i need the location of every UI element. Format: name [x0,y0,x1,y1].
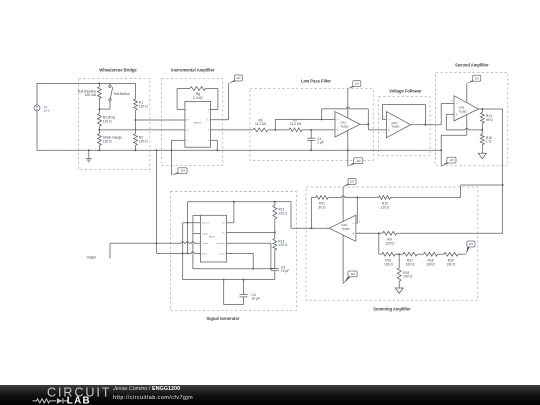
label C3 10 µF [281,266,289,274]
svg-text:Control: Control [219,252,226,255]
label C1 1 µF [317,137,324,145]
wire IA out to R6 [210,129,253,131]
wire LPF feedback top [322,109,369,124]
svg-text:10 µF: 10 µF [252,297,260,301]
wire R1-R2 node [135,110,137,133]
svg-text:120 Ω: 120 Ω [278,211,287,215]
svg-text:6: 6 [208,130,209,132]
svg-text:IN+: IN+ [186,130,189,132]
flag 12V summing [343,178,356,186]
wire reset jog [156,243,200,254]
flag -12V summing [343,271,357,284]
ground SA [478,145,486,159]
svg-text:11.2 kΩ: 11.2 kΩ [290,122,302,126]
section box Voltage Follower [379,97,430,156]
wire R11 to minus node [328,196,378,198]
svg-text:-12V: -12V [350,272,356,276]
wire bridge left tap to IN+ [99,129,184,131]
section label Signal Generator [207,316,240,321]
wire C-line bottom [183,279,275,281]
op-amp U2 555 timer [200,215,226,262]
wire OA1 V+ supply [347,89,349,119]
wire C4 loop [224,280,244,305]
wire R9 to SA out column [397,232,503,234]
opamp OA1 +/- marks [337,118,339,133]
wire SG top line [187,201,329,229]
svg-text:10 µF: 10 µF [281,269,289,273]
svg-text:3: 3 [451,117,453,119]
svg-text:−: − [352,222,354,226]
svg-text:Threshold: Threshold [216,242,226,245]
resistor R14 [480,109,484,123]
flag 12V SA [467,75,481,83]
svg-text:Summing Amplifier: Summing Amplifier [373,307,411,312]
label R17 100 Ω [406,259,415,267]
svg-text:12V: 12V [469,242,474,246]
pin labels INA126 right [207,109,209,142]
svg-text:+: + [456,113,458,117]
svg-text:1: 1 [357,121,359,123]
capacitor C4 [240,280,248,305]
svg-text:1: 1 [186,109,187,111]
svg-text:Trigger: Trigger [202,232,209,235]
wire hop output row 2 [186,242,189,245]
label R19 100 Ω [403,271,412,279]
resistor Test Resistor [98,87,102,99]
svg-text:Instrumental Amplifier: Instrumental Amplifier [171,68,215,73]
section box Wheatstone Bridge [79,78,150,169]
svg-text:Second Amplifier: Second Amplifier [455,63,489,68]
label R16 100 Ω [384,259,393,267]
op-amp OA4 [386,112,410,138]
wire Rg loop left [177,89,190,110]
capacitor C1 [307,130,315,151]
svg-text:120 Ω: 120 Ω [103,120,112,124]
label R3 (Pot) 120 Ω [103,116,115,124]
wire SA plus input [446,114,483,131]
label R9 120 Ω [385,238,394,246]
svg-text:100 Ω: 100 Ω [384,262,393,266]
wire R18-R20 [438,253,444,255]
svg-text:120 Ω: 120 Ω [139,105,148,109]
svg-text:12 V: 12 V [44,108,50,112]
wire 555 threshold stub [227,243,271,269]
resistor R12 [273,202,277,219]
wire divider down [379,233,382,254]
svg-text:IN−: IN− [186,120,189,122]
svg-text:1 Ω: 1 Ω [486,140,492,144]
wire top rail [37,82,136,84]
wire R10 to SA out [390,185,502,197]
wire R20 to 12V flag [458,253,466,255]
label R15 1 Ω [486,136,492,144]
wire OA1 out [360,123,386,130]
label R20 100 Ω [447,259,456,267]
resistor R20 [444,252,458,256]
svg-text:−: − [337,118,339,122]
wire node A [268,129,289,131]
switch Test Button [99,83,112,109]
section label Instrumental Amplifier [171,68,215,73]
pin numbers OA2 [327,222,361,235]
section label Low Pass Filter [301,78,331,83]
svg-text:120 Ω: 120 Ω [381,205,390,209]
resistor R19 [397,254,401,281]
wire test-resistor top [98,82,100,86]
flag -12V LPF [348,158,363,167]
wire LPF minus loop [275,109,335,130]
wire Rg loop right [206,89,218,110]
wire hop output row 1 [181,242,184,245]
wire pin5 to rail [210,140,218,151]
svg-text:120 Ω: 120 Ω [139,139,148,143]
label Output [86,255,96,259]
svg-text:1: 1 [477,105,479,107]
svg-text:Signal Generator: Signal Generator [207,316,240,321]
label OA2 TL082 [341,223,350,231]
svg-text:12V: 12V [355,82,360,86]
svg-text:6: 6 [359,222,361,224]
junction mark crossing [135,129,136,130]
resistor R18 [424,252,438,256]
svg-text:100 Ω: 100 Ω [447,262,456,266]
wire bottom rail [37,149,441,151]
op-amp OA6 [454,96,478,121]
label R13 120 Ω [278,240,287,248]
wire SA output [478,108,503,233]
section label Second Amplifier [455,63,489,68]
wire SA V- supply [440,115,467,167]
svg-text:-12V: -12V [180,169,186,173]
resistor R6 [253,128,268,132]
opamp OA4 +/- marks [388,118,390,133]
resistor R9 [383,231,397,235]
svg-text:99 Ω: 99 Ω [486,118,494,122]
resistor R2 [134,134,138,146]
label OA1 TL082 [340,121,349,129]
svg-text:−: − [456,102,458,106]
footer bar [0,385,540,405]
wire 555 ground net [183,202,201,280]
wire OA1 V- supply [347,130,349,166]
svg-text:Dis: Dis [222,233,225,235]
label R6 11.2 kΩ [255,119,267,127]
flag -12V SA [441,157,456,166]
svg-text:INA126: INA126 [194,122,202,125]
flag -12V IA [171,168,187,175]
label R18 100 Ω [426,259,435,267]
wire net vertical from rail [155,149,157,244]
wire hop LPF feedback [346,107,349,110]
svg-text:5: 5 [208,140,209,142]
resistor R1 [134,99,138,110]
svg-text:120 Ω: 120 Ω [278,243,287,247]
wire 555 vcc [227,202,234,223]
svg-text:Wheatstone Bridge: Wheatstone Bridge [99,68,137,73]
wire 555 dis [227,231,276,233]
ground summing [395,281,403,293]
svg-text:8: 8 [208,109,209,111]
resistor R10 [378,196,390,200]
wire OA2 minus input [356,197,357,223]
svg-text:LAB: LAB [67,395,91,405]
label Strain Gauge 120 Ω [103,135,122,143]
svg-text:12V: 12V [474,76,479,80]
svg-text:12V: 12V [350,179,355,183]
svg-text:TL082: TL082 [391,125,400,129]
section label Summing Amplifier [373,307,411,312]
wire test-resistor bottom [98,99,100,114]
svg-text:12V: 12V [236,76,241,80]
label R1 120 Ω [139,101,148,109]
section box Second Amplifier [436,72,508,165]
label V1 12 V [44,105,50,113]
svg-text:Reset: Reset [202,252,208,255]
pin labels 555 right [216,223,226,256]
opamp OA2 +/- marks [352,222,354,237]
svg-text:2: 2 [451,101,453,103]
svg-text:1 µF: 1 µF [317,140,324,144]
svg-text:120 Ω: 120 Ω [385,241,394,245]
capacitor C3 [271,250,279,280]
svg-text:V+: V+ [207,120,209,122]
label NE555 [209,236,216,238]
voltage source V1 [34,83,40,150]
label R2 120 Ω [139,135,148,143]
section box Instrumental Amplifier [162,79,223,166]
svg-text:TL082: TL082 [459,109,468,113]
resistor R16 [382,252,396,256]
label C4 10 µF [252,293,260,301]
label OA4 TL082 [391,121,400,129]
wire node B to plus input [302,129,335,131]
label R12 120 Ω [278,208,287,216]
CircuitLab logo [0,385,110,405]
svg-text:3: 3 [332,133,334,135]
op-amp OA2 [329,215,356,241]
svg-text:30 Ω: 30 Ω [318,205,326,209]
wire R2 bottom [135,145,137,151]
wire OA2 plus row [356,232,383,234]
opamp OA6 +/- marks [456,102,458,117]
svg-text:5: 5 [383,132,385,134]
svg-text:+: + [388,129,390,133]
label OA6 TL082 [459,106,468,114]
label Test Resistor 100 mΩ [77,89,97,97]
svg-text:6: 6 [383,117,385,119]
resistor R13 [273,219,277,250]
ground bridge [86,149,92,161]
svg-text:Vcc: Vcc [222,223,225,225]
flag 12V divider [466,241,475,254]
svg-text:100 Ω: 100 Ω [406,262,415,266]
pin numbers OA1 [332,116,359,135]
section box Low Pass Filter [250,89,373,161]
wire hop R11 row [342,196,345,199]
pin labels INA126 left [186,109,189,142]
wire bridge right tap to IN- [136,119,185,121]
wire R17-R18 [417,253,423,255]
resistor Strain Gauge [98,134,102,146]
pin numbers OA6 [451,101,479,119]
wire threshold line [193,268,275,270]
section label Wheatstone Bridge [99,68,137,73]
section box Summing Amplifier [306,187,478,300]
svg-text:TL082: TL082 [340,124,349,128]
resistor Rg [190,87,206,91]
wire 555 trigger [193,215,201,268]
wire V+ pin7 to 12V [210,83,228,120]
svg-text:+: + [352,232,354,236]
svg-text:−: − [388,118,390,122]
wire OA2 V- supply [342,235,344,284]
op-amp OA1 [335,112,360,137]
flag 12V LPF [348,81,361,89]
pin numbers OA4 [383,117,414,134]
label INA126 [194,122,202,125]
resistor R17 [403,252,417,256]
svg-text:-12V: -12V [449,158,455,162]
svg-text:7: 7 [327,225,329,227]
svg-text:V−: V− [186,140,188,142]
svg-text:-12V: -12V [356,159,362,163]
resistor R7 [289,128,302,132]
svg-text:2.2 kΩ: 2.2 kΩ [193,96,203,100]
wire SA V+ supply [466,83,468,102]
wire hop output row 3 [191,242,194,245]
svg-text:NE555: NE555 [209,236,216,238]
resistor R3 (Pot) [98,113,102,126]
svg-text:Output: Output [202,242,209,245]
wire 555 output row [110,242,200,244]
wire 555 control stub [227,253,254,268]
svg-text:+: + [337,128,339,132]
flag 12V IA [229,75,243,83]
wire R1 top [135,83,137,99]
wire VF out to SA [425,104,454,125]
wire OA2 V+ supply [342,187,344,222]
svg-text:TL082: TL082 [341,227,350,231]
wire V- pin4 to -12V [170,140,185,175]
wire R3 to strain gauge [98,126,100,134]
resistor R11 [316,196,328,200]
label R7 11.2 kΩ [290,119,302,127]
wire R16-R17 [395,253,403,255]
section box Signal Generator [171,192,297,311]
svg-text:11.2 kΩ: 11.2 kΩ [255,122,267,126]
resistor R15 [480,123,484,145]
svg-text:100 Ω: 100 Ω [426,262,435,266]
svg-text:2: 2 [332,116,334,118]
label R14 99 Ω [486,114,494,122]
svg-text:120 Ω: 120 Ω [103,139,112,143]
wire output terminal stub [109,243,111,258]
label R11 30 Ω [318,202,326,210]
label R10 120 Ω [381,202,390,210]
wire VF feedback [382,104,426,125]
label Rg 2.2 kΩ [193,92,203,100]
svg-text:Low Pass Filter: Low Pass Filter [301,78,331,83]
wire hop SA plus row [465,128,468,131]
wire strain gauge bottom [98,145,100,151]
svg-text:7: 7 [412,122,414,124]
svg-text:Voltage Follower: Voltage Follower [389,89,422,94]
wire R11 branch [312,197,316,228]
svg-text:100 mΩ: 100 mΩ [85,93,97,97]
op-amp U1 INA126 [185,101,211,147]
svg-text:100 Ω: 100 Ω [403,275,412,279]
pin labels 555 left [202,222,210,256]
svg-text:Test Button: Test Button [113,92,129,96]
label Test Button [113,92,129,96]
wire hop reset row [191,252,194,255]
svg-text:Ground: Ground [202,222,210,225]
section label Voltage Follower [389,89,422,94]
svg-text:Output: Output [86,255,96,259]
